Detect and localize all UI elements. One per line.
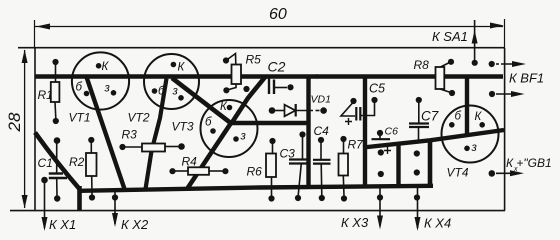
resistor R6 bbox=[266, 144, 276, 196]
svg-text:R4: R4 bbox=[182, 155, 198, 169]
pad R4 right bbox=[222, 168, 228, 174]
svg-text:R3: R3 bbox=[122, 128, 138, 142]
pad node box2 bottom bbox=[414, 169, 420, 175]
transistor VT1 bbox=[72, 52, 129, 109]
pad R8 top bbox=[448, 59, 454, 65]
pad X1 bbox=[41, 177, 48, 184]
svg-text:К X2: К X2 bbox=[121, 217, 149, 232]
svg-text:К +"GB1: К +"GB1 bbox=[506, 156, 552, 170]
pad C3 bottom bbox=[295, 195, 301, 201]
svg-text:R2: R2 bbox=[69, 155, 85, 169]
pad node box2 top bbox=[414, 150, 420, 156]
pad R3 left bbox=[119, 144, 125, 150]
pad GB1 bbox=[489, 170, 496, 177]
VT2 base dot bbox=[152, 88, 158, 94]
svg-text:з: з bbox=[172, 86, 179, 98]
wire mid vertical bbox=[306, 77, 310, 189]
transistor VT4 bbox=[442, 106, 499, 163]
pad R4 left bbox=[169, 168, 175, 174]
pad C5 left bbox=[350, 98, 356, 104]
transistor pin letters bbox=[76, 61, 483, 154]
wire VT3 emitter diagonal bbox=[187, 123, 231, 189]
pad BF1 top bbox=[489, 61, 495, 67]
pad R7 bottom bbox=[341, 195, 347, 201]
svg-text:VT1: VT1 bbox=[69, 111, 91, 125]
pad R1 top bbox=[52, 59, 58, 65]
svg-text:C7: C7 bbox=[421, 109, 439, 124]
wire VT2 base diagonal bbox=[146, 79, 167, 190]
resistor R8 bbox=[436, 62, 452, 93]
svg-text:К SA1: К SA1 bbox=[432, 29, 468, 44]
capacitor C2 bbox=[269, 79, 287, 95]
svg-text:VT2: VT2 bbox=[128, 111, 150, 125]
wire top bus bbox=[35, 74, 503, 78]
pads bbox=[41, 57, 495, 201]
pad R5 top bbox=[223, 57, 229, 63]
svg-text:C4: C4 bbox=[314, 124, 330, 138]
pad C6 top bbox=[377, 130, 383, 136]
pad R6 top bbox=[269, 138, 275, 144]
arrow К X1 bbox=[42, 180, 48, 231]
capacitor C7 bbox=[409, 103, 429, 141]
VT4 emitter dot bbox=[464, 146, 470, 152]
svg-text:К: К bbox=[178, 62, 186, 74]
wire left edge stub bbox=[77, 186, 82, 210]
pad C3 top bbox=[299, 131, 305, 137]
svg-text:з: з bbox=[240, 131, 247, 143]
svg-text:R1: R1 bbox=[38, 88, 53, 102]
svg-text:К BF1: К BF1 bbox=[509, 71, 544, 86]
arrow К X2 bbox=[112, 190, 118, 227]
transistor VT3 bbox=[201, 100, 258, 157]
board outline bbox=[10, 48, 505, 211]
resistor R5 bbox=[226, 54, 241, 91]
svg-text:К X3: К X3 bbox=[341, 215, 369, 230]
VT1 base dot bbox=[84, 91, 90, 97]
svg-text:C3: C3 bbox=[280, 147, 296, 161]
svg-text:VT3: VT3 bbox=[172, 120, 194, 134]
svg-text:б: б bbox=[76, 82, 83, 94]
capacitor C3 bbox=[289, 138, 308, 196]
svg-text:К X1: К X1 bbox=[49, 217, 76, 232]
pad C4 top bbox=[318, 137, 324, 143]
pad VD1 anode bbox=[269, 107, 276, 114]
pad C1 bottom bbox=[54, 195, 60, 201]
pad X2 bbox=[112, 194, 118, 200]
diode VD1 bbox=[274, 104, 320, 117]
pad R6 bottom bbox=[268, 195, 274, 201]
arrow К BF1 bottom bbox=[496, 91, 525, 97]
pad C1 top bbox=[54, 137, 61, 144]
pad C5 right bbox=[371, 97, 377, 103]
dimension 60 bbox=[35, 6, 505, 47]
pad C6 bottom bbox=[378, 149, 384, 155]
svg-text:б: б bbox=[205, 117, 212, 129]
wire bottom bus bbox=[80, 186, 434, 191]
resistor R4 bbox=[175, 167, 223, 175]
capacitor C1 bbox=[49, 143, 67, 196]
wire VT3 horizontal to vertical bbox=[230, 121, 309, 126]
svg-text:R6: R6 bbox=[247, 165, 263, 179]
capacitor C5 bbox=[341, 103, 375, 125]
pad R8 bottom bbox=[449, 90, 455, 96]
pad node box1 bbox=[378, 171, 384, 177]
pad R2 top bbox=[88, 137, 94, 143]
svg-text:VD1: VD1 bbox=[311, 94, 331, 106]
svg-text:К: К bbox=[102, 61, 110, 73]
svg-text:з: з bbox=[471, 142, 478, 154]
pad R5 bottom bbox=[223, 87, 229, 93]
svg-text:К X4: К X4 bbox=[424, 216, 451, 231]
dimension 28 bbox=[5, 50, 28, 209]
wire VT1 emitter diagonal bbox=[87, 77, 126, 191]
pad C7 top bbox=[416, 97, 422, 103]
VT3 collector dot bbox=[227, 105, 233, 111]
transistor pin dots bbox=[84, 62, 485, 151]
svg-text:б: б bbox=[455, 111, 462, 123]
wire VT4 collector vertical bbox=[465, 77, 469, 136]
node on top bus bbox=[315, 74, 319, 78]
arrow К X4 bbox=[415, 188, 421, 231]
pad R3 right bbox=[178, 143, 185, 150]
VT4 base dot bbox=[449, 122, 455, 128]
wire box vertical x401 bbox=[396, 143, 400, 189]
arrow К GB1 bbox=[496, 170, 524, 176]
wire box vertical x427 bbox=[428, 140, 433, 187]
pad X3 bbox=[377, 194, 383, 200]
wire left diagonal bbox=[35, 133, 80, 190]
arrow К SA1 bbox=[472, 20, 478, 63]
wire C5 vertical bbox=[363, 77, 367, 189]
svg-text:б: б bbox=[158, 86, 165, 98]
pad SA1 bbox=[472, 60, 478, 66]
svg-text:C1: C1 bbox=[38, 156, 53, 170]
capacitor C6 bbox=[372, 136, 392, 154]
svg-text:x: x bbox=[513, 166, 518, 173]
resistor R7 bbox=[339, 141, 349, 196]
VT2 collector dot bbox=[171, 62, 177, 68]
arrow К BF1 top bbox=[496, 61, 526, 67]
VT3 base dot bbox=[210, 128, 216, 134]
svg-text:R7: R7 bbox=[348, 138, 365, 152]
resistor R1 bbox=[51, 65, 60, 118]
pad R7 top bbox=[340, 136, 346, 142]
pad BF1 bottom bbox=[489, 91, 495, 97]
VT3 emitter dot bbox=[233, 136, 239, 142]
transistor VT2 bbox=[144, 54, 199, 109]
svg-text:К: К bbox=[475, 111, 483, 123]
wire VT3 collector diagonal bbox=[231, 77, 266, 125]
pad X4 bbox=[414, 194, 420, 200]
pad C4 bottom bbox=[319, 195, 325, 201]
wire VT2 to VT3 diagonal bbox=[172, 78, 232, 124]
svg-text:R5: R5 bbox=[246, 53, 262, 67]
VT4 collector dot bbox=[479, 122, 485, 128]
wire slant under C6 C7 bbox=[363, 130, 504, 148]
VT1 emitter dot bbox=[111, 90, 117, 96]
svg-text:VT4: VT4 bbox=[447, 166, 469, 180]
svg-text:C6: C6 bbox=[385, 126, 399, 138]
resistor R3 bbox=[125, 144, 179, 152]
arrow К X3 bbox=[377, 188, 383, 230]
svg-text:C2: C2 bbox=[268, 59, 286, 75]
pad R2 bottom bbox=[89, 194, 95, 200]
capacitor C4 bbox=[313, 143, 331, 196]
svg-text:з: з bbox=[104, 83, 111, 95]
svg-text:28: 28 bbox=[5, 112, 24, 132]
pad C2 right bbox=[287, 84, 293, 90]
svg-text:R8: R8 bbox=[414, 58, 430, 72]
svg-text:60: 60 bbox=[269, 6, 287, 23]
VT2 emitter dot bbox=[178, 95, 184, 101]
pad VD1 cathode bbox=[320, 107, 327, 114]
resistor R2 bbox=[86, 143, 97, 195]
pad node near C2 bbox=[243, 86, 249, 92]
VT1 collector dot bbox=[96, 63, 102, 69]
pad R1 bottom bbox=[53, 118, 59, 124]
svg-text:C5: C5 bbox=[369, 82, 385, 96]
